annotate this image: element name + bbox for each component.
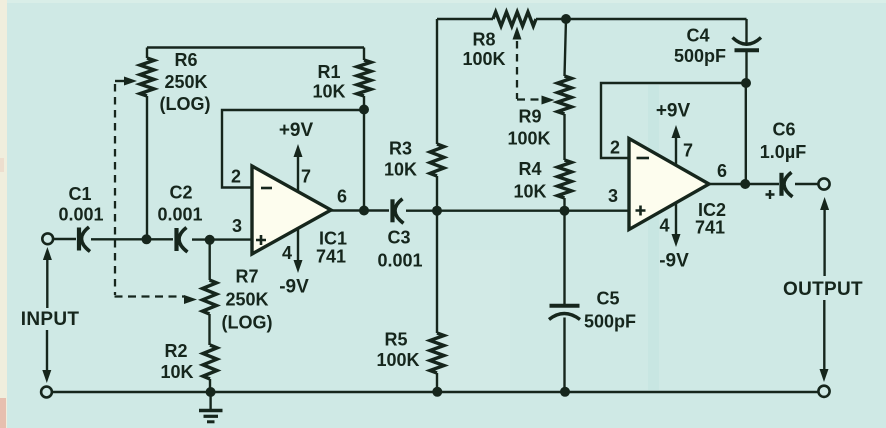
svg-text:+9V: +9V <box>656 101 691 122</box>
wire IC1 feedback box to pin 2 <box>222 110 364 188</box>
op-amp IC2 741 <box>629 139 709 230</box>
node C4 / feedback box junction <box>741 78 751 88</box>
svg-text:OUTPUT: OUTPUT <box>783 279 863 300</box>
svg-text:6: 6 <box>717 161 727 181</box>
node input/R6 junction <box>142 234 152 244</box>
svg-text:1.0µF: 1.0µF <box>760 142 806 162</box>
svg-text:R5: R5 <box>384 330 407 350</box>
wire feedback vertical to output <box>745 83 747 184</box>
svg-text:C4: C4 <box>686 26 709 46</box>
svg-text:0.001: 0.001 <box>157 205 202 225</box>
R6 wiper arrow <box>115 80 125 82</box>
wire R7 branch <box>208 240 211 392</box>
svg-text:250K: 250K <box>225 290 268 310</box>
capacitor C1 0.001 <box>77 228 81 251</box>
node C3/R3/R5 junction <box>432 206 442 216</box>
IC1 minus sign <box>261 187 272 190</box>
wire top-left loop (R6 top to R1 top) <box>147 46 364 48</box>
svg-text:(LOG): (LOG) <box>222 313 273 333</box>
op-amp IC1 741 <box>252 166 331 254</box>
wire R9/R4 branch <box>565 19 567 211</box>
wire IC2 output line <box>709 183 779 185</box>
output terminal bottom <box>818 386 829 397</box>
wire C5 branch <box>563 211 565 392</box>
svg-text:2: 2 <box>610 138 620 158</box>
svg-text:R3: R3 <box>389 139 412 159</box>
svg-text:250K: 250K <box>164 72 207 92</box>
resistor R3 10K <box>430 144 444 176</box>
svg-text:4: 4 <box>659 216 669 236</box>
svg-text:7: 7 <box>301 167 311 187</box>
svg-text:INPUT: INPUT <box>21 309 80 330</box>
svg-text:7: 7 <box>683 141 693 161</box>
capacitor C2 0.001 <box>174 228 178 251</box>
resistor R5 100K <box>430 333 444 373</box>
svg-text:741: 741 <box>316 247 346 267</box>
C6 plus sign <box>766 190 775 199</box>
svg-text:2: 2 <box>231 167 241 187</box>
svg-text:R2: R2 <box>164 341 187 361</box>
svg-text:10K: 10K <box>160 362 193 382</box>
wire IC2 feedback box <box>601 83 746 158</box>
svg-text:10K: 10K <box>312 82 345 102</box>
resistor R1 10K <box>357 60 371 96</box>
svg-text:+9V: +9V <box>279 120 314 141</box>
svg-text:500pF: 500pF <box>584 312 636 332</box>
wire R3 branch <box>436 19 438 211</box>
ground symbol <box>209 392 211 409</box>
svg-text:10K: 10K <box>384 160 417 180</box>
svg-text:10K: 10K <box>513 182 546 202</box>
input terminal bottom <box>41 387 52 398</box>
node IC1 output / feedback junction <box>359 206 369 216</box>
wire input line <box>54 238 77 240</box>
node R4 / mid-line junction <box>560 206 570 216</box>
potentiometer R9 100K <box>558 76 572 114</box>
capacitor C3 0.001 <box>390 199 394 222</box>
node R1 bottom junction <box>359 105 369 115</box>
R8 wiper dashed arrow <box>513 27 522 40</box>
svg-text:R1: R1 <box>317 62 340 82</box>
resistor R4 10K <box>558 160 572 198</box>
IC1 -9V supply arrow pin 4 <box>297 227 299 260</box>
svg-text:C3: C3 <box>387 228 410 248</box>
node C2/R7/pin3 junction <box>205 235 215 245</box>
svg-text:(LOG): (LOG) <box>160 94 211 114</box>
IC2 plus sign <box>636 206 646 216</box>
node IC2 output junction <box>740 179 750 189</box>
svg-text:100K: 100K <box>376 350 419 370</box>
capacitor C5 500pF <box>550 304 580 308</box>
node R5 bottom junction <box>432 387 442 397</box>
capacitor C6 1uF electrolytic <box>779 173 783 196</box>
svg-text:R8: R8 <box>472 30 495 50</box>
wire to output terminal <box>795 183 818 185</box>
resistor R2 10K <box>203 345 217 379</box>
wire IC1 output line <box>331 209 389 211</box>
IC1 plus sign <box>256 235 266 245</box>
svg-text:0.001: 0.001 <box>377 251 422 271</box>
svg-text:100K: 100K <box>507 129 550 149</box>
IC2 +9V supply arrow pin 7 <box>675 138 677 165</box>
wire bottom rail <box>53 391 819 393</box>
svg-text:3: 3 <box>608 186 618 206</box>
svg-text:4: 4 <box>282 243 292 263</box>
svg-text:0.001: 0.001 <box>58 205 103 225</box>
svg-text:C5: C5 <box>596 289 619 309</box>
capacitor C4 500pF <box>745 19 747 83</box>
svg-text:-9V: -9V <box>659 251 689 272</box>
svg-text:100K: 100K <box>462 49 505 69</box>
svg-text:-9V: -9V <box>279 277 309 298</box>
node ground junction <box>206 387 216 397</box>
IC2 minus sign <box>637 157 650 160</box>
wire R1 branch <box>363 48 365 211</box>
svg-text:741: 741 <box>695 218 725 238</box>
svg-text:R9: R9 <box>518 107 541 127</box>
svg-text:C2: C2 <box>169 183 192 203</box>
dashed wire R6 wiper to R7 wiper <box>114 84 116 295</box>
IC1 +9V supply arrow pin 7 <box>297 157 299 191</box>
svg-text:500pF: 500pF <box>674 46 726 66</box>
svg-text:IC1: IC1 <box>319 229 347 249</box>
wire R5 branch <box>436 211 438 392</box>
svg-text:C1: C1 <box>68 184 91 204</box>
svg-text:R6: R6 <box>174 50 197 70</box>
resistor R8 100K <box>493 12 536 26</box>
svg-text:R4: R4 <box>518 159 541 179</box>
INPUT double arrow <box>43 247 52 260</box>
input terminal top <box>42 233 53 244</box>
wire top rail <box>437 18 747 20</box>
node C5 bottom junction <box>560 387 570 397</box>
svg-text:C6: C6 <box>772 120 795 140</box>
resistor R6 250K LOG potentiometer <box>140 58 154 96</box>
IC2 -9V supply arrow pin 4 <box>675 203 677 234</box>
output terminal top <box>818 178 829 189</box>
wire R6 branch down to input node <box>146 48 148 240</box>
svg-text:R7: R7 <box>235 267 258 287</box>
svg-text:3: 3 <box>232 216 242 236</box>
OUTPUT double arrow <box>820 197 829 210</box>
svg-text:6: 6 <box>337 187 347 207</box>
node top rail / R9 junction <box>561 14 571 24</box>
potentiometer R7 250K LOG <box>203 280 217 314</box>
